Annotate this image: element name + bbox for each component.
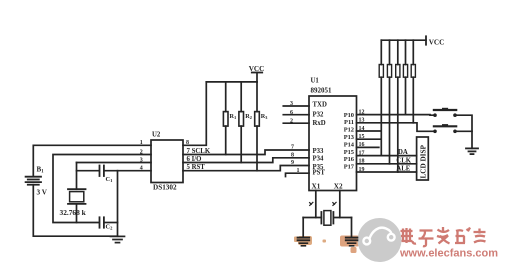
- crystal Y2: [320, 212, 322, 224]
- wire GND pin4 of U2 with C1 in series: [77, 170, 99, 172]
- svg-text:P16: P16: [344, 156, 355, 163]
- svg-text:U1: U1: [311, 78, 320, 85]
- capacitor C1: [100, 166, 104, 177]
- svg-text:892051: 892051: [311, 87, 333, 95]
- svg-text:P34: P34: [313, 156, 325, 163]
- wire P12 stub: [357, 130, 381, 132]
- push button S2: [433, 125, 457, 133]
- wire P14 stub: [357, 146, 379, 148]
- wire I/O from U2 pin6 to U1 P34: [183, 158, 309, 163]
- watermark blob right orange: [340, 236, 359, 254]
- wire C2 to ground vertical: [105, 222, 118, 224]
- svg-text:www.elecfans.com: www.elecfans.com: [399, 248, 498, 260]
- svg-text:6: 6: [290, 110, 293, 116]
- watermark blob left orange: [294, 236, 326, 245]
- svg-text:P12: P12: [344, 127, 354, 134]
- pull-up resistor RP1: [380, 40, 382, 64]
- capacitor C4: [346, 238, 358, 241]
- svg-text:18: 18: [359, 159, 365, 165]
- svg-text:P15: P15: [344, 149, 354, 156]
- svg-text:CLK: CLK: [396, 157, 411, 164]
- svg-text:9: 9: [291, 160, 294, 166]
- ground (C3): [299, 243, 307, 246]
- svg-text:16: 16: [359, 142, 365, 148]
- svg-text:X2: X2: [334, 182, 343, 190]
- wire X2 pin3 of U2 to crystal top: [77, 162, 152, 164]
- wire SCLK from U2 pin7 to U1 P33: [183, 150, 309, 155]
- svg-text:1: 1: [140, 140, 143, 146]
- svg-text:17: 17: [359, 150, 365, 156]
- wire RxD stub: [283, 122, 309, 124]
- svg-text:C2: C2: [106, 224, 114, 231]
- push button S1: [433, 109, 457, 117]
- svg-text:ALE: ALE: [396, 166, 410, 173]
- svg-text:X1: X1: [312, 182, 321, 190]
- VCC bus (right): [381, 39, 426, 41]
- capacitor C3: [298, 238, 310, 241]
- svg-text:5 RST: 5 RST: [187, 164, 206, 171]
- pin mark 4 at X2: [333, 202, 336, 205]
- pull-up resistor RP3: [397, 40, 399, 64]
- ground (C4): [348, 243, 356, 246]
- svg-text:15: 15: [359, 134, 365, 140]
- svg-text:VCC: VCC: [249, 65, 265, 73]
- VCC symbol (right): [425, 36, 427, 44]
- VCC symbol (middle): [252, 72, 262, 74]
- svg-text:P17: P17: [344, 163, 355, 170]
- watermark logo circle: [358, 218, 402, 262]
- svg-text:1: 1: [297, 168, 300, 174]
- pull-up resistor RP4: [405, 40, 407, 64]
- wire VCC1 pin1 of U2 to battery positive: [33, 145, 151, 176]
- ground (keys): [466, 148, 478, 154]
- svg-text:2: 2: [140, 149, 143, 155]
- svg-text:7 SCLK: 7 SCLK: [187, 148, 211, 155]
- svg-text:P11: P11: [344, 119, 354, 126]
- svg-text:R3: R3: [261, 113, 268, 120]
- capacitor C2: [100, 217, 104, 227]
- svg-text:VCC: VCC: [429, 39, 445, 47]
- svg-text:LCD DISP: LCD DISP: [420, 145, 428, 179]
- svg-text:P32: P32: [313, 111, 325, 118]
- watermark text dian zi fa shao you: [401, 227, 486, 246]
- svg-text:3: 3: [140, 157, 143, 163]
- svg-text:P14: P14: [344, 141, 355, 148]
- wire P32 stub: [283, 114, 309, 116]
- pull-up resistor RP5: [412, 40, 414, 64]
- svg-text:U2: U2: [152, 132, 161, 139]
- svg-text:6 I/O: 6 I/O: [187, 156, 202, 163]
- svg-text:P10: P10: [344, 112, 354, 119]
- svg-text:4: 4: [140, 166, 143, 172]
- svg-text:PST: PST: [313, 170, 326, 177]
- VCC bus (middle): [206, 81, 257, 83]
- wire XTAL1 U1 X1: [315, 191, 317, 218]
- wire P13 stub: [357, 138, 381, 140]
- svg-text:8: 8: [186, 140, 189, 146]
- svg-text:P33: P33: [313, 148, 325, 155]
- pin mark 5 at X1: [310, 202, 313, 205]
- wire P11 pin13 jog to key S2: [357, 123, 436, 132]
- svg-text:RxD: RxD: [313, 120, 326, 127]
- resistor R3: [256, 82, 258, 112]
- svg-text:TXD: TXD: [313, 101, 327, 108]
- svg-text:14: 14: [359, 126, 365, 132]
- battery B1: [26, 177, 41, 185]
- svg-text:3 V: 3 V: [37, 189, 48, 197]
- resistor R2: [240, 82, 242, 112]
- svg-text:19: 19: [359, 167, 365, 173]
- wire P17 ALE to LCD: [357, 171, 417, 173]
- svg-text:32.768 k: 32.768 k: [60, 208, 87, 217]
- svg-text:R1: R1: [230, 113, 237, 120]
- svg-text:R2: R2: [245, 113, 252, 120]
- wire P15 DA to LCD: [357, 155, 417, 157]
- ground (left section): [111, 236, 125, 242]
- svg-text:C1: C1: [106, 176, 114, 183]
- wire S1 to ground rail: [455, 115, 472, 148]
- wire TXD stub: [283, 105, 309, 107]
- IC U2 DS1302: [151, 140, 183, 183]
- svg-text:7: 7: [291, 145, 294, 151]
- crystal Y1 32.768k: [76, 163, 78, 190]
- wire P10 pin12 to key S1: [357, 114, 436, 117]
- wire X1 pin2 of U2 loop to crystal bottom: [53, 155, 151, 223]
- pull-up resistor RP2: [389, 40, 391, 64]
- svg-text:8: 8: [291, 152, 294, 158]
- wire ground drop at x=117: [117, 171, 119, 237]
- LCD display module: [417, 137, 429, 180]
- wire RST from U2 pin5 to U1 P35: [183, 166, 309, 171]
- IC U1 892051: [309, 96, 357, 191]
- svg-text:13: 13: [359, 118, 365, 124]
- wire S2 to ground rail: [455, 130, 472, 132]
- svg-text:DA: DA: [398, 149, 408, 156]
- svg-text:P13: P13: [344, 134, 354, 141]
- wire PST stub to U1 pin1: [286, 173, 310, 176]
- wire XTAL2 U1 X2: [339, 191, 341, 218]
- resistor R1: [225, 82, 227, 112]
- wire battery negative to ground rail: [33, 185, 117, 237]
- svg-text:3: 3: [290, 101, 293, 107]
- svg-text:2: 2: [290, 119, 293, 125]
- wire VCC2 pin8 of U2 to VCC bus: [183, 82, 206, 145]
- svg-text:DS1302: DS1302: [153, 184, 177, 192]
- svg-text:12: 12: [359, 109, 365, 115]
- wire P16 CLK to LCD: [357, 163, 417, 165]
